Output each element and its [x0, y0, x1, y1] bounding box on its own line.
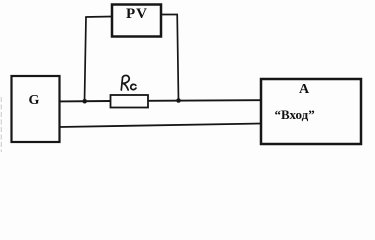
wire: left vertical to PV — [85, 17, 87, 101]
wire: resistor to A (upper) — [148, 99, 261, 102]
svg-text:“Вход”: “Вход” — [275, 107, 315, 122]
label Rc (script R with subscript c) — [121, 75, 136, 90]
svg-text:A: A — [299, 82, 310, 97]
generator G box — [12, 76, 60, 142]
wire: G to resistor (upper) — [60, 100, 111, 102]
amplifier A box with "Вход" input label — [261, 79, 361, 144]
wire: G to A (lower) — [60, 124, 262, 128]
junction node left — [82, 99, 87, 104]
wire: right vertical from PV — [177, 15, 178, 101]
wire: top horizontal into PV left pin — [85, 16, 112, 19]
voltmeter PV box — [112, 5, 161, 37]
svg-text:PV: PV — [126, 6, 148, 22]
junction node right — [176, 98, 181, 103]
scan artifact: faint left-edge line — [0, 97, 2, 152]
wire: PV right pin horizontal — [161, 14, 178, 16]
resistor Rc box — [111, 95, 149, 108]
svg-text:G: G — [29, 93, 40, 108]
